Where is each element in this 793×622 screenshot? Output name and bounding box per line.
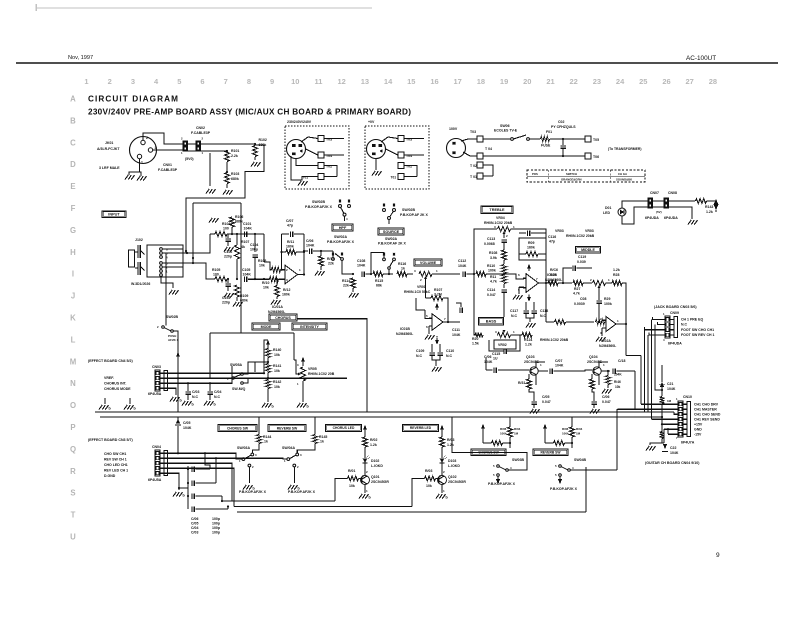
svg-text:C113: C113 xyxy=(487,237,495,241)
wire -15V xyxy=(668,433,678,435)
svg-text:17: 17 xyxy=(454,77,462,86)
wires CN03 to right xyxy=(164,372,264,374)
TREBLE label box xyxy=(481,206,513,214)
svg-text:L.IOKD: L.IOKD xyxy=(371,464,383,468)
svg-text:PY CFHZQULS: PY CFHZQULS xyxy=(551,125,576,129)
svg-text:24: 24 xyxy=(616,77,625,86)
ground IC02A xyxy=(601,328,603,336)
resistor 100k REVERB SW xyxy=(569,427,574,437)
caps C109 C110 N.C xyxy=(431,344,433,352)
svg-text:SW/04A: SW/04A xyxy=(282,446,296,450)
potentiometer VR04 treble xyxy=(498,226,511,231)
resistor R26 1.2k xyxy=(548,280,558,285)
SOURCE label box xyxy=(378,228,404,235)
svg-text:GND: GND xyxy=(694,428,702,432)
svg-text:FOOT SW CHO CH1: FOOT SW CHO CH1 xyxy=(681,328,714,332)
capacitor C07 after Q103 xyxy=(538,370,548,372)
ground DIN2 xyxy=(375,159,377,171)
svg-text:R105: R105 xyxy=(212,268,220,272)
svg-text:E: E xyxy=(70,182,75,191)
svg-text:SW02B: SW02B xyxy=(166,315,179,319)
svg-text:100p: 100p xyxy=(212,531,220,535)
dashed box DIN2 xyxy=(365,126,429,189)
capacitor C06 into Q03 xyxy=(493,367,495,373)
arrow supply LED xyxy=(707,200,717,202)
svg-text:104K: 104K xyxy=(183,426,192,430)
supply arrow up IC01B xyxy=(435,303,439,308)
svg-text:INTENSITY: INTENSITY xyxy=(300,325,319,329)
resistor R30 lower mid 2 xyxy=(596,319,605,324)
svg-text:100p: 100p xyxy=(212,526,220,530)
capacitor C03 coupling xyxy=(191,506,193,512)
bottom enclosure rect xyxy=(222,500,335,502)
potentiometer VR05 intensity xyxy=(301,357,305,362)
svg-text:C/03: C/03 xyxy=(192,390,199,394)
svg-text:10k: 10k xyxy=(274,385,280,389)
svg-text:T 01: T 01 xyxy=(470,175,477,179)
svg-text:R101: R101 xyxy=(231,149,239,153)
voltage table dashed xyxy=(527,170,645,182)
svg-text:100p: 100p xyxy=(212,517,220,521)
svg-text:R103: R103 xyxy=(231,172,239,176)
REVERB SW footswitch label box xyxy=(533,449,568,456)
transistor Q103 2SC945 xyxy=(530,367,538,375)
svg-text:11: 11 xyxy=(315,77,323,86)
wire vref rail vertical xyxy=(240,203,242,333)
REVERB SW label box xyxy=(268,425,306,432)
capacitor C103 N.C xyxy=(187,383,189,391)
resistor R1 1k to +V xyxy=(696,198,707,203)
svg-text:3 LRF MALE: 3 LRF MALE xyxy=(99,166,120,170)
supply arrows IC02B xyxy=(527,264,531,269)
svg-text:R107: R107 xyxy=(434,288,442,292)
HPF label box xyxy=(332,224,353,231)
svg-text:CH GA: CH GA xyxy=(618,172,627,176)
svg-text:19: 19 xyxy=(500,77,508,86)
wire C18 to master line xyxy=(634,371,636,409)
svg-text:T06: T06 xyxy=(593,155,599,159)
svg-text:CH1 MASTER: CH1 MASTER xyxy=(694,408,717,412)
wire inlet bottom to T04 xyxy=(463,152,477,156)
svg-text:C/03: C/03 xyxy=(191,531,198,535)
svg-text:R/31: R/31 xyxy=(518,381,525,385)
svg-text:160k: 160k xyxy=(527,246,535,250)
svg-text:CH 1 PRE EQ: CH 1 PRE EQ xyxy=(681,318,703,322)
svg-text:P.B.KOP.AF2K X: P.B.KOP.AF2K X xyxy=(239,490,267,494)
svg-text:CHORUS: CHORUS xyxy=(275,316,291,320)
capacitor C106 104K series xyxy=(308,248,310,254)
jack contact circles xyxy=(160,248,163,251)
svg-text:NJM4560L: NJM4560L xyxy=(396,332,414,336)
svg-text:VR01: VR01 xyxy=(417,285,426,289)
svg-text:C118: C118 xyxy=(540,309,548,313)
grid row letters A-U xyxy=(70,95,77,542)
capacitor C04 coupling xyxy=(191,493,193,499)
svg-text:1.2k: 1.2k xyxy=(370,443,377,447)
terminal T02 DIN1 xyxy=(318,163,324,169)
svg-text:2: 2 xyxy=(146,136,148,140)
svg-text:16: 16 xyxy=(430,77,438,86)
svg-text:1: 1 xyxy=(84,77,88,86)
svg-text:4.7k: 4.7k xyxy=(573,292,580,296)
terminal T03 DIN1 xyxy=(318,136,324,142)
svg-text:9: 9 xyxy=(270,77,274,86)
svg-text:3.9k: 3.9k xyxy=(490,256,497,260)
svg-text:R09: R09 xyxy=(528,241,534,245)
svg-text:0.039: 0.039 xyxy=(577,260,586,264)
svg-text:C/06: C/06 xyxy=(306,239,313,243)
svg-text:N.C: N.C xyxy=(446,354,453,358)
svg-text:T 04: T 04 xyxy=(485,147,492,151)
BASS label box xyxy=(479,317,504,325)
svg-text:R28: R28 xyxy=(613,273,619,277)
resistor R11 4.7k below xyxy=(501,265,506,274)
svg-text:CHORUS INT.: CHORUS INT. xyxy=(104,382,127,386)
svg-text:R/03: R/03 xyxy=(447,438,454,442)
svg-text:6P4U5A: 6P4U5A xyxy=(148,392,162,396)
wire node treble mid xyxy=(498,273,510,275)
ground CN08 leg xyxy=(669,207,693,219)
svg-text:1.2k: 1.2k xyxy=(706,210,713,214)
svg-text:CN08: CN08 xyxy=(668,191,677,195)
svg-text:R115: R115 xyxy=(375,279,383,283)
svg-text:G: G xyxy=(70,226,76,235)
svg-text:5: 5 xyxy=(177,77,181,86)
svg-text:104K: 104K xyxy=(306,244,315,248)
svg-text:FOOT SW REV CH 1: FOOT SW REV CH 1 xyxy=(681,333,715,337)
svg-text:1k: 1k xyxy=(264,440,268,444)
svg-text:N: N xyxy=(70,379,76,388)
svg-text:D102: D102 xyxy=(371,459,379,463)
connector AC inlet face xyxy=(447,139,466,158)
wire CN07-CN08 xyxy=(653,200,665,202)
CHORUS label box xyxy=(269,314,297,321)
stack left edge down xyxy=(474,274,482,335)
header rule xyxy=(16,62,778,64)
wire base chorus transistor xyxy=(335,479,348,502)
svg-text:C112: C112 xyxy=(458,259,466,263)
svg-text:C104: C104 xyxy=(250,243,258,247)
wire R106 down xyxy=(231,227,233,234)
svg-text:0.0068: 0.0068 xyxy=(484,242,495,246)
svg-text:D.GND: D.GND xyxy=(104,474,116,478)
resistor R110 100k into node xyxy=(476,271,486,276)
svg-text:100k: 100k xyxy=(562,432,569,436)
arrow down SW03B xyxy=(497,476,499,479)
capacitor C105 coupling below bus xyxy=(177,417,179,422)
LED D103 xyxy=(440,459,445,463)
wire to Q04 base xyxy=(560,370,592,371)
svg-text:TREBLE: TREBLE xyxy=(489,208,505,212)
svg-text:Nov, 1997: Nov, 1997 xyxy=(68,55,93,61)
LED D01 xyxy=(618,208,626,216)
svg-text:R11: R11 xyxy=(490,275,496,279)
resistor R46 10k xyxy=(605,376,610,385)
ground CN03 pin4 xyxy=(170,397,173,402)
svg-text:C110: C110 xyxy=(446,349,454,353)
svg-text:IC/01A: IC/01A xyxy=(272,305,283,309)
svg-text:C/07: C/07 xyxy=(286,219,293,223)
resistor R32 under Q104 xyxy=(589,379,594,389)
capacitor C115 1U xyxy=(489,340,504,351)
resistor R115 68k xyxy=(373,271,383,276)
svg-text:R20: R20 xyxy=(472,337,478,341)
op-amp IC01B NJM4560L xyxy=(432,314,443,331)
svg-text:1M: 1M xyxy=(667,399,672,403)
svg-text:2SC945GR: 2SC945GR xyxy=(448,480,466,484)
svg-text:U: U xyxy=(70,533,76,542)
capacitor C113 0.0068 xyxy=(501,239,507,241)
ground under R103 xyxy=(226,184,228,188)
connector CN08 6P4UDA xyxy=(664,198,669,203)
jack upper contact symbol xyxy=(137,245,139,258)
resistor R 1.2k CHORUS LED xyxy=(364,432,366,437)
transistor Q102 2SC945GR xyxy=(441,463,443,476)
resistor R108 3.9k stack xyxy=(501,250,506,260)
svg-text:C102: C102 xyxy=(224,250,232,254)
svg-text:C103: C103 xyxy=(222,296,230,300)
svg-text:6P4UDA: 6P4UDA xyxy=(664,216,678,220)
resistor R101 2.2k xyxy=(224,151,229,162)
terminal T02 AC stub xyxy=(477,162,483,168)
svg-text:22: 22 xyxy=(570,77,578,86)
svg-text:680k: 680k xyxy=(231,177,239,181)
svg-text:10k: 10k xyxy=(426,484,432,488)
ground symbol C22 xyxy=(650,443,662,445)
resistor base Q101 xyxy=(348,476,359,481)
svg-text:VR04: VR04 xyxy=(496,216,505,220)
ground IC01B xyxy=(428,326,430,334)
wire XLR pin2 to CN01 xyxy=(143,133,183,144)
svg-text:R/04: R/04 xyxy=(514,427,521,431)
svg-text:CHO LED CH1: CHO LED CH1 xyxy=(104,463,128,467)
svg-text:SOUND&BK: SOUND&BK xyxy=(616,178,632,182)
svg-text:B: B xyxy=(70,116,76,125)
svg-text:1.5k: 1.5k xyxy=(472,342,479,346)
wire volume to tone stack xyxy=(432,273,460,275)
svg-text:IC01B: IC01B xyxy=(400,327,410,331)
svg-text:C02: C02 xyxy=(558,120,564,124)
switch SW02A source select xyxy=(366,273,371,275)
svg-text:CIRCUIT DIAGRAM: CIRCUIT DIAGRAM xyxy=(88,94,179,103)
svg-text:7: 7 xyxy=(224,77,228,86)
wire Q104 emitter to C06 xyxy=(592,389,594,395)
svg-text:I: I xyxy=(72,270,74,279)
svg-text:R104: R104 xyxy=(222,222,230,226)
svg-text:RH0N.1C02 20B: RH0N.1C02 20B xyxy=(308,372,335,376)
resistor R41 10k xyxy=(267,358,269,365)
svg-text:104K: 104K xyxy=(670,451,679,455)
ground SW04A pole xyxy=(293,467,295,483)
svg-text:D: D xyxy=(70,160,76,169)
terminal T01 DIN2 xyxy=(398,174,404,180)
svg-text:R/11: R/11 xyxy=(287,240,294,244)
svg-text:REVERB SW: REVERB SW xyxy=(541,451,562,455)
svg-text:R116: R116 xyxy=(398,262,406,266)
wires into CN10 xyxy=(641,403,678,405)
resistor R124 after bass xyxy=(522,332,532,337)
svg-text:VR03: VR03 xyxy=(585,229,594,233)
svg-text:10k: 10k xyxy=(259,264,265,268)
ground above R104 xyxy=(209,218,212,223)
svg-text:12: 12 xyxy=(338,77,346,86)
wire aux jack down xyxy=(177,345,179,412)
svg-text:JK01: JK01 xyxy=(105,141,113,145)
supply arrow REVERB SW fs xyxy=(543,424,547,429)
terminal T02 DIN2 xyxy=(398,163,404,169)
svg-text:INPUT: INPUT xyxy=(108,212,120,216)
svg-text:R143: R143 xyxy=(705,205,713,209)
svg-text:C/18: C/18 xyxy=(618,359,625,363)
svg-text:R/C6: R/C6 xyxy=(550,268,558,272)
wires cap stack up xyxy=(205,453,210,469)
svg-text:R29: R29 xyxy=(604,297,610,301)
svg-text:CN04: CN04 xyxy=(152,445,161,449)
svg-text:T03: T03 xyxy=(470,130,476,134)
resistor R42 10k xyxy=(267,373,269,381)
resistor R 1.2k REVERB LED xyxy=(441,432,443,437)
svg-text:C115: C115 xyxy=(492,352,500,356)
svg-text:10k: 10k xyxy=(615,385,621,389)
svg-text:68k: 68k xyxy=(376,284,382,288)
svg-text:AC-100UT: AC-100UT xyxy=(686,55,716,62)
svg-text:VOLUME: VOLUME xyxy=(420,261,437,265)
capacitor C102 220p xyxy=(227,234,229,238)
svg-text:C111: C111 xyxy=(452,328,460,332)
svg-text:220p: 220p xyxy=(222,301,230,305)
terminal T04 DIN1 xyxy=(318,152,324,158)
connector J102 phone jack body xyxy=(129,250,135,267)
capacitor C21 104K rail xyxy=(661,365,663,382)
svg-text:RH0N.1C0 50kC: RH0N.1C0 50kC xyxy=(404,290,431,294)
MODE label box xyxy=(252,323,280,330)
svg-text:26: 26 xyxy=(662,77,670,86)
svg-text:R/06: R/06 xyxy=(500,427,507,431)
resistor R112 160k below op-amp xyxy=(276,278,278,280)
arrow down SW04B xyxy=(559,476,561,479)
svg-text:P.B.KOP.AF2K X: P.B.KOP.AF2K X xyxy=(327,240,355,244)
svg-text:C/06: C/06 xyxy=(484,355,491,359)
tone stack outer wires xyxy=(474,229,497,274)
svg-text:R/10: R/10 xyxy=(262,281,269,285)
resistor R102 680k xyxy=(254,143,256,145)
svg-text:MODE: MODE xyxy=(261,325,272,329)
svg-text:SW06: SW06 xyxy=(500,124,510,128)
svg-text:T 02: T 02 xyxy=(470,164,477,168)
resistor R105 100 lower xyxy=(215,276,227,281)
svg-text:1k: 1k xyxy=(401,267,405,271)
resistor R104 100 upper xyxy=(215,231,227,236)
potentiometer VR01 xyxy=(419,271,432,276)
svg-text:Q102: Q102 xyxy=(448,475,457,479)
wires CN04 out xyxy=(164,453,242,459)
svg-text:(EFFECT BOARD CN4 5/2): (EFFECT BOARD CN4 5/2) xyxy=(88,359,134,363)
wire R102 node to right rail xyxy=(186,145,264,251)
svg-text:T: T xyxy=(71,511,76,520)
svg-text:R107: R107 xyxy=(241,240,249,244)
wire chorus enclosure right xyxy=(297,319,367,412)
potentiometer VR03 middle xyxy=(593,280,606,285)
svg-text:F.CABLE3P: F.CABLE3P xyxy=(158,168,178,172)
svg-text:VREF.: VREF. xyxy=(104,376,114,380)
resistor R27 4.7k xyxy=(573,280,583,285)
bus wire upper xyxy=(95,411,674,413)
svg-text:VR02: VR02 xyxy=(498,343,507,347)
transistor Q101 2SC945GR xyxy=(364,463,366,476)
svg-text:C/04: C/04 xyxy=(191,526,198,530)
svg-text:R145: R145 xyxy=(319,435,327,439)
svg-text:R/04: R/04 xyxy=(576,427,583,431)
connector CN02 F.CABLE3P xyxy=(196,141,201,146)
capacitor C104 N.C xyxy=(209,383,211,391)
svg-text:Q103: Q103 xyxy=(526,355,535,359)
svg-text:S: S xyxy=(70,489,75,498)
svg-text:20: 20 xyxy=(523,77,531,86)
svg-text:10k: 10k xyxy=(263,286,269,290)
jack ground stub xyxy=(161,277,173,288)
svg-text:REV SW CH 1: REV SW CH 1 xyxy=(104,458,127,462)
svg-text:M: M xyxy=(70,357,77,366)
wire wiper down to IC01B xyxy=(425,281,427,298)
wire CN02 to resistors xyxy=(201,143,256,145)
wire IC02B out right xyxy=(546,282,553,284)
svg-text:CHORUS MODE: CHORUS MODE xyxy=(104,387,131,391)
svg-text:SW/03A: SW/03A xyxy=(237,446,251,450)
svg-text:R/46: R/46 xyxy=(614,380,621,384)
svg-text:T01: T01 xyxy=(391,176,397,180)
svg-text:22k: 22k xyxy=(343,284,349,288)
svg-text:2SC945GR: 2SC945GR xyxy=(371,480,389,484)
svg-text:C101: C101 xyxy=(243,222,251,226)
svg-text:NJM4560L: NJM4560L xyxy=(268,310,286,314)
svg-text:C/04: C/04 xyxy=(214,390,221,394)
svg-text:C116: C116 xyxy=(548,235,556,239)
svg-text:J: J xyxy=(71,292,75,301)
resistor base Q102 xyxy=(425,476,436,481)
resistor R29 100k lower mid xyxy=(555,319,566,324)
svg-text:1: 1 xyxy=(141,161,143,165)
resistor R113 22k to ground xyxy=(318,256,323,266)
svg-text:1.2k: 1.2k xyxy=(525,343,532,347)
svg-text:C114: C114 xyxy=(487,288,495,292)
svg-text:100: 100 xyxy=(223,227,229,231)
svg-text:(5V0): (5V0) xyxy=(185,157,194,161)
svg-text:FUSE: FUSE xyxy=(541,144,551,148)
svg-text:CH1 CHO DRV: CH1 CHO DRV xyxy=(694,403,719,407)
svg-text:C/05: C/05 xyxy=(542,395,549,399)
capacitor C114 0.047 xyxy=(503,284,505,288)
svg-text:MIDDLE: MIDDLE xyxy=(581,248,595,252)
svg-text:K: K xyxy=(70,314,76,323)
svg-text:N.C: N.C xyxy=(192,395,199,399)
svg-text:P.B.KOP.AF2K X: P.B.KOP.AF2K X xyxy=(288,490,316,494)
svg-text:SW/02B: SW/02B xyxy=(312,200,326,204)
op-amp IC01A NJM4560L xyxy=(285,265,298,284)
resistor into CHORUS SW xyxy=(492,440,503,445)
ground IC02B xyxy=(518,287,520,294)
svg-text:104K: 104K xyxy=(555,364,564,368)
connector J101 XLR body xyxy=(130,137,157,164)
svg-text:CHORUS LED: CHORUS LED xyxy=(333,426,355,430)
connector DIN2 face xyxy=(367,140,386,159)
scan artifact top edge xyxy=(36,7,372,9)
svg-text:230V/240V PRE-AMP BOARD ASSY (: 230V/240V PRE-AMP BOARD ASSY (MIC/AUX CH… xyxy=(88,108,411,117)
bus wire lower xyxy=(100,416,662,418)
resistor R107 4k vertical xyxy=(236,233,238,235)
resistor R28 1.2k right of VR03 xyxy=(606,282,613,284)
svg-text:160k: 160k xyxy=(286,245,294,249)
resistor R40 10k xyxy=(267,347,269,349)
